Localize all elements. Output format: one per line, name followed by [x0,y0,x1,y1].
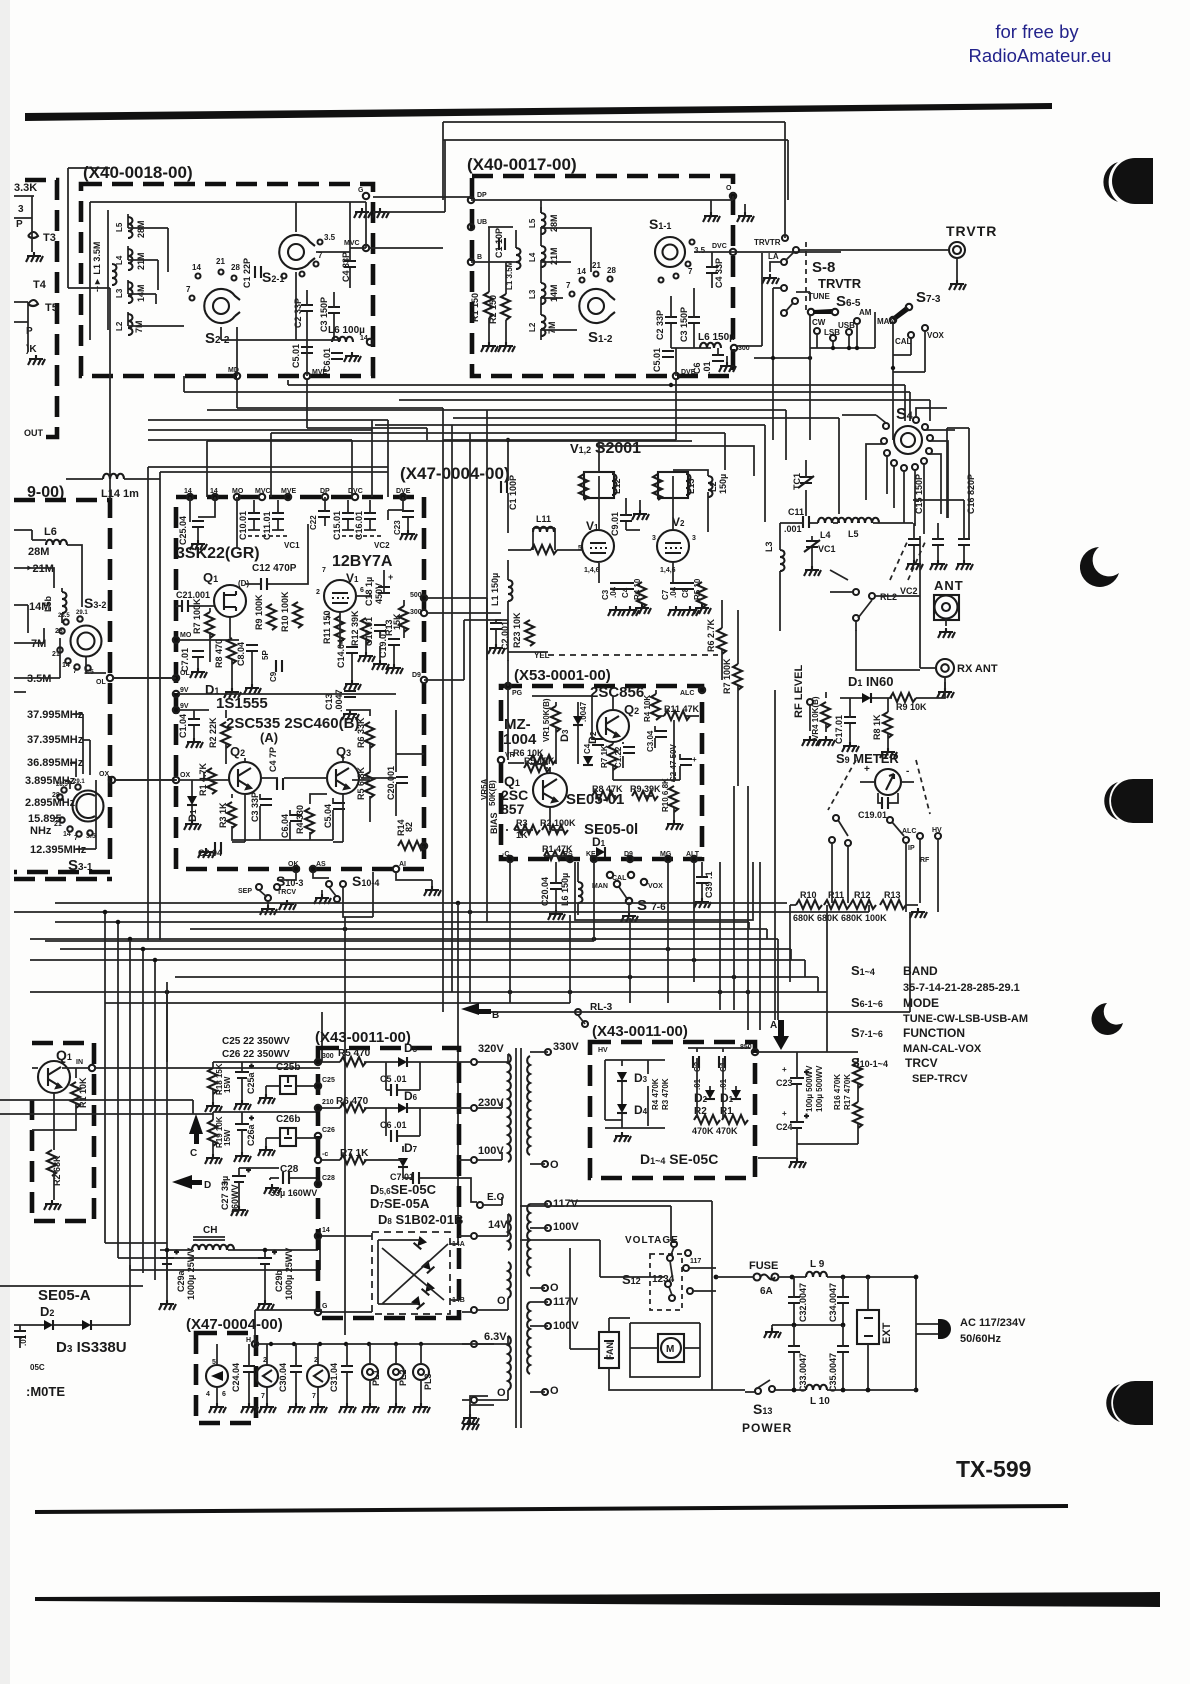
svg-text:for free by: for free by [995,21,1079,42]
ground [344,352,361,362]
svg-text:T5: T5 [45,302,58,314]
rotary S3-1 [73,791,104,822]
svg-text:C23: C23 [393,520,402,535]
wire from 0018 MD down [237,380,508,440]
S10-4 lever switch [326,881,332,887]
ground [354,208,371,218]
svg-text:C10.01: C10.01 [238,511,248,540]
svg-text:S-8: S-8 [812,259,835,276]
lower link wires [754,357,810,359]
svg-text:L12: L12 [612,478,622,494]
svg-text:POWER: POWER [742,1421,792,1435]
svg-text:7: 7 [688,267,693,276]
VR node [498,757,504,763]
svg-text:+: + [692,755,697,764]
svg-text:C29b: C29b [274,1269,284,1292]
svg-text:OX: OX [180,772,190,779]
transistor Q3 [327,762,359,794]
S6 lever [808,309,814,315]
svg-text:C9: C9 [269,671,278,682]
svg-text:37.995MHz: 37.995MHz [27,709,84,721]
S7 wires [893,323,925,440]
svg-text:R4 330: R4 330 [295,805,305,834]
lamp 3 [307,1365,329,1387]
svg-text:DVC: DVC [348,488,363,495]
svg-text:OL: OL [96,679,106,686]
coil L2 7M [128,314,133,335]
T3 coil curl [28,232,38,238]
RX ANT connector [936,659,954,677]
svg-text:R23 10K: R23 10K [512,612,522,648]
svg-text:2: 2 [316,589,320,596]
svg-text:DVC: DVC [712,243,727,250]
ground [372,208,389,218]
dashed box X40-0017 [472,176,733,376]
MVC node [363,245,369,251]
node C26 [315,1133,321,1139]
svg-text:150µ: 150µ [718,474,728,494]
left partial module dashed edge [25,180,57,437]
svg-text:L14 1m: L14 1m [101,488,139,500]
svg-text:R7 100K: R7 100K [722,658,732,694]
svg-text:320V: 320V [478,1043,504,1055]
svg-text:C31.04: C31.04 [329,1363,339,1392]
svg-text:28: 28 [231,263,240,272]
svg-text:210: 210 [322,1099,334,1106]
bottom nodes [293,866,299,872]
node C28 [315,1181,321,1187]
svg-text:21M: 21M [136,252,146,270]
DP node [468,197,474,203]
S12 selector dashed box [650,1254,682,1310]
svg-text:+: + [782,1109,787,1118]
coil L1 3.5M [516,248,521,269]
svg-text:12BY7A: 12BY7A [332,553,393,570]
vertical bundle top to X47 [148,420,388,497]
svg-text:C12 470P: C12 470P [252,563,297,574]
Q2 transistor [597,710,629,742]
svg-text:3.3K: 3.3K [14,182,37,194]
svg-text:O: O [726,185,732,192]
svg-text:OK: OK [288,861,299,868]
svg-text:100V: 100V [553,1221,579,1233]
svg-text:MO: MO [180,632,192,639]
svg-text:100µ 500WV: 100µ 500WV [815,1065,824,1112]
svg-text:28: 28 [607,266,616,275]
svg-text:R12 39K: R12 39K [350,610,360,646]
long vertical feed [570,1201,716,1390]
svg-text:C14.04: C14.04 [336,639,346,668]
top rule bar [25,103,1052,121]
svg-text:AS: AS [316,861,326,868]
binder mark 2 [1080,547,1119,587]
coil L3 14M [128,282,133,303]
dashed box X53 [501,686,702,859]
svg-text:L5: L5 [528,218,537,228]
svg-text:L11: L11 [536,514,551,524]
PL1 [362,1364,378,1380]
svg-text:14: 14 [192,263,201,272]
svg-text:L4: L4 [820,530,831,540]
motor M [661,1338,681,1358]
svg-text:C15.01: C15.01 [332,511,342,540]
node 300 [315,1059,321,1065]
C29a [160,1250,179,1265]
svg-text:R17 470K: R17 470K [843,1074,852,1110]
svg-text:C34.0047: C34.0047 [828,1283,838,1322]
svg-text:BIAS: BIAS [489,812,499,834]
S4 contacts [881,417,933,471]
svg-text:R1 150: R1 150 [470,293,480,322]
svg-text:M: M [666,1344,674,1355]
svg-text:RL2: RL2 [880,592,897,602]
svg-text:AI: AI [399,861,406,868]
svg-text:C3.04: C3.04 [646,730,655,752]
C26a [235,1116,254,1131]
svg-text:C7.01: C7.01 [390,1172,414,1182]
coil L4 21M [541,246,546,267]
svg-text:NHz: NHz [30,825,52,837]
grounds row [358,652,375,662]
svg-text:1S1555: 1S1555 [216,695,268,712]
bridge diodes [414,1236,427,1249]
Q1 transistor [533,773,567,807]
svg-text:C24.04: C24.04 [231,1363,241,1392]
svg-text:T4: T4 [33,279,47,291]
svg-text:21: 21 [592,261,601,270]
svg-text:3.5: 3.5 [324,233,336,242]
svg-text:R8 1K: R8 1K [872,714,882,740]
EXT connector [857,1310,879,1344]
svg-text:3SK22(GR): 3SK22(GR) [176,545,260,562]
primary taps [542,1049,551,1395]
svg-text:29.1: 29.1 [76,610,88,616]
svg-text:C26a: C26a [246,1123,256,1146]
wire jack to S8 [798,249,949,251]
svg-text:C18 1µ: C18 1µ [364,577,374,606]
ground [28,355,45,365]
svg-text:ANT: ANT [934,578,964,593]
R10-13 link [790,905,818,982]
svg-text:C2 33P: C2 33P [293,298,303,328]
svg-text:C26b: C26b [276,1114,300,1125]
svg-text:L5: L5 [848,529,859,539]
tube V1 12BY7A [324,580,356,612]
wire left feed [68,288,110,500]
svg-text:14: 14 [577,267,586,276]
node G [363,193,369,199]
svg-text:100V: 100V [478,1145,504,1157]
svg-text:P: P [16,219,23,230]
svg-text:TUNE: TUNE [808,292,830,301]
svg-text:R2 22K: R2 22K [208,717,218,748]
svg-text:MVE: MVE [312,369,328,376]
svg-text:SEP: SEP [238,888,252,895]
coil L14 1m [103,474,124,479]
svg-text:117V: 117V [553,1296,579,1308]
svg-text:-: - [906,766,909,777]
svg-text:FUSE: FUSE [749,1260,778,1272]
TRVTR jack [949,242,965,258]
contact dots [196,274,201,279]
svg-text:HV: HV [598,1047,608,1054]
rotary switch S2-1 [279,235,315,269]
svg-text:TRVTR: TRVTR [818,276,862,291]
coil L5 28M [127,214,129,326]
svg-text:L6 150µ: L6 150µ [560,873,570,906]
svg-text:R5 10: R5 10 [693,578,702,600]
svg-text:MVE: MVE [281,488,297,495]
svg-text:OL: OL [180,670,190,677]
svg-text:470K 470K: 470K 470K [692,1126,738,1136]
svg-text:R1 10K: R1 10K [78,1077,88,1108]
svg-text:330V: 330V [553,1041,579,1053]
svg-text:C6 .01: C6 .01 [380,1120,407,1130]
svg-text:R9 100K: R9 100K [254,594,264,630]
S8 lever [793,247,799,253]
svg-text:R16 470K: R16 470K [833,1074,842,1110]
svg-text:14: 14 [184,488,192,495]
svg-text:+: + [388,572,393,582]
svg-text:DP: DP [477,192,487,199]
svg-text:680K 680K 680K 100K: 680K 680K 680K 100K [793,913,887,923]
svg-text:.001: .001 [784,524,802,534]
dashed box [196,1333,256,1423]
svg-text:05C: 05C [30,1363,45,1372]
B node [468,259,474,265]
svg-text:6A: 6A [760,1286,773,1297]
svg-text:300: 300 [410,609,422,616]
9V nodes [173,691,179,697]
wire [68,168,110,288]
L4 [818,518,839,523]
top rail [443,122,788,238]
inner frame wire [90,202,366,340]
primary right winding bumps [527,1056,530,1374]
svg-text:MODE: MODE [903,996,939,1010]
svg-text:300: 300 [322,1053,334,1060]
svg-text:L5: L5 [115,222,124,232]
svg-text:O: O [497,1295,506,1307]
svg-text:C25b: C25b [276,1062,300,1073]
wire DVE down to C1 [508,380,676,440]
svg-text:VOX: VOX [648,883,663,890]
binder mark 5 [1106,1381,1153,1425]
svg-text:R8 470: R8 470 [214,639,224,668]
svg-text:1000µ 25WV: 1000µ 25WV [284,1248,294,1300]
svg-text:VC2: VC2 [900,586,918,596]
svg-text:O: O [550,1282,559,1294]
binder mark 4 [1092,1003,1123,1035]
dashed box X47 [176,497,424,869]
svg-text:LA: LA [768,252,779,261]
wires to switch [128,228,184,326]
wire X40 boxes link [373,140,471,212]
svg-text:(X53-0001-00): (X53-0001-00) [514,667,611,684]
svg-text:T3: T3 [43,232,56,244]
svg-text:28.5: 28.5 [58,613,70,619]
C25a [235,1064,254,1079]
dashed box 9-00 [14,500,110,872]
svg-text:R7 100K: R7 100K [192,598,202,634]
transistor Q1 [38,1061,70,1093]
svg-text:C13: C13 [324,693,334,710]
diode D3 [82,1320,91,1330]
svg-text:L2: L2 [528,322,537,332]
svg-text:7: 7 [312,1393,316,1400]
svg-text:R13: R13 [884,890,901,900]
svg-text:R10 100K: R10 100K [280,591,290,632]
S2-1 contacts [318,240,323,245]
C29b [258,1250,277,1265]
VC2 dashed [890,540,926,580]
L10 [806,1385,827,1390]
svg-text:VOX: VOX [927,331,945,340]
svg-text:28M: 28M [28,546,49,558]
svg-text:3: 3 [18,204,24,215]
svg-text:C1.22: C1.22 [614,746,623,768]
solid frame around S7-6 [575,862,753,920]
svg-text:B: B [477,254,482,261]
svg-text:PL2: PL2 [398,1369,408,1386]
svg-text:14M: 14M [29,601,50,613]
tube V2 final [657,530,689,562]
svg-text:C29a: C29a [176,1269,186,1292]
svg-text:C24: C24 [776,1122,793,1132]
ground [26,252,43,262]
bus verticals down [105,912,167,1280]
dashed box X43 left [318,1048,459,1318]
svg-text:C30.04: C30.04 [278,1363,288,1392]
PL3 [413,1364,429,1380]
DVE node [673,373,679,379]
svg-text:9V: 9V [180,687,189,694]
svg-text:C25: C25 [322,1077,335,1084]
tank L12 [579,472,622,500]
transformer secondary taps [471,1059,483,1403]
transistor Q2 [229,762,261,794]
PG node [505,683,511,689]
dashed link [805,242,807,310]
interior wires G [508,689,699,830]
heater rail 6.3V [258,1343,494,1345]
svg-text:VC1: VC1 [818,544,836,554]
node 210 [315,1105,321,1111]
T5 coil curl [28,300,38,306]
svg-text:C28: C28 [322,1175,335,1182]
top-right grounds [730,193,736,199]
svg-text:RS: RS [563,851,573,858]
svg-text:C20.001: C20.001 [386,766,396,800]
svg-text:G: G [322,1303,328,1310]
svg-text:RadioAmateur.eu: RadioAmateur.eu [969,45,1112,66]
node 14 [315,1233,321,1239]
svg-text:SEP-TRCV: SEP-TRCV [912,1073,968,1085]
svg-text:G: G [358,187,364,194]
svg-text:R12: R12 [854,890,871,900]
svg-text:D3 IS338U: D3 IS338U [56,1339,127,1356]
L5 [838,518,879,539]
svg-text:3.5M: 3.5M [27,673,51,685]
svg-text:1000µ 25WV: 1000µ 25WV [186,1248,196,1300]
svg-text:(A): (A) [260,730,278,745]
svg-text:117: 117 [690,1258,701,1265]
svg-text:1,4,6: 1,4,6 [584,567,600,574]
rotary switch S1-2 [579,289,615,323]
svg-text:+: + [222,1178,227,1188]
svg-text:USB: USB [838,321,855,330]
svg-text:TRVTR: TRVTR [946,223,997,239]
svg-text:MO: MO [232,488,244,495]
svg-text:50K(B): 50K(B) [488,780,497,806]
svg-text:L4: L4 [115,255,124,265]
svg-text:7: 7 [261,1393,265,1400]
svg-text:L1 150µ: L1 150µ [490,573,500,606]
C39 .1 [696,877,708,883]
svg-text:O: O [550,1385,559,1397]
svg-text:PG: PG [512,690,523,697]
svg-text:MG: MG [660,851,672,858]
svg-text:SE05-A: SE05-A [38,1287,91,1304]
lamp 2 [256,1365,278,1387]
svg-text:5: 5 [212,1359,216,1366]
svg-text:R4 10K: R4 10K [643,695,652,722]
ANT connector [934,595,959,620]
svg-text:L3: L3 [764,541,774,552]
svg-text:R11: R11 [828,890,844,900]
X53 PG link [424,598,508,686]
svg-text:VC1: VC1 [284,541,300,550]
svg-text:9V: 9V [180,703,189,710]
coil L2 7M [541,315,546,336]
dashed box X43 right [590,1042,755,1178]
vertical to CH [458,903,470,1243]
svg-text:KEY: KEY [586,851,601,858]
svg-text:850: 850 [740,1044,752,1051]
svg-text:C2 33P: C2 33P [655,310,665,340]
top nodes [187,494,193,500]
svg-text:C6: C6 [692,362,702,374]
svg-text:C25.04: C25.04 [178,516,188,545]
svg-text:IN: IN [76,1059,83,1066]
wires to S3-1 [54,714,96,849]
meter drops [832,857,938,912]
wires right [296,202,350,340]
wires [471,200,711,262]
svg-text:C35.0047: C35.0047 [828,1353,838,1392]
svg-text:6.3V: 6.3V [484,1331,507,1343]
svg-text:CW: CW [812,318,826,327]
arrow B [461,1003,479,1015]
svg-text:C4 7P: C4 7P [268,747,278,772]
svg-text:100V: 100V [553,1320,579,1332]
svg-text:.0047: .0047 [579,701,588,722]
vertical feeder bundle [322,410,487,1062]
svg-text:L3: L3 [115,288,124,298]
svg-text:AM: AM [859,308,872,317]
svg-text:C1.04: C1.04 [178,714,188,738]
svg-text:C: C [190,1148,197,1159]
svg-text:+: + [864,764,870,775]
svg-text:C1 100P: C1 100P [508,475,518,510]
svg-text:TRVTR: TRVTR [754,238,781,247]
svg-text:O: O [497,1387,506,1399]
svg-text:15W: 15W [223,1129,232,1146]
svg-text:L 10: L 10 [810,1396,830,1407]
svg-text:3: 3 [652,535,656,542]
svg-text:(X43-0011-00): (X43-0011-00) [315,1029,411,1046]
svg-text:857: 857 [501,801,525,817]
